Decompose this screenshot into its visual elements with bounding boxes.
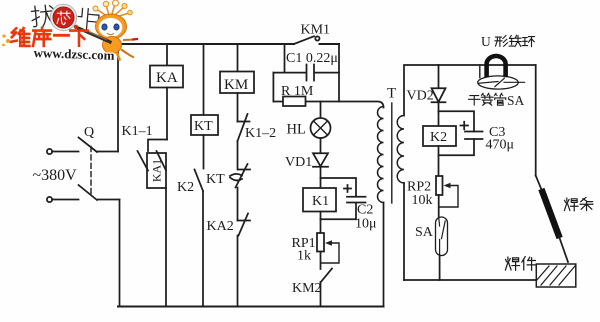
U-shaped iron ring <box>487 56 506 75</box>
wire left feed down <box>119 200 121 307</box>
wire bottom bus <box>118 306 384 308</box>
wire C3 top branch <box>439 111 475 131</box>
svg-text:KT: KT <box>206 172 225 187</box>
reed switch SA tube <box>436 217 448 256</box>
wire VD1 to K1 <box>320 167 322 188</box>
svg-text:K1–2: K1–2 <box>245 126 276 141</box>
svg-text:KT: KT <box>194 119 213 134</box>
wire KT branch upper <box>203 44 205 115</box>
svg-text:10k: 10k <box>412 193 433 208</box>
wire RP1 to KM2 <box>320 252 322 270</box>
wire KT branch mid <box>203 135 205 169</box>
wire secondary down left edge <box>403 183 405 280</box>
watermark logo: badge circle with 芯 <box>50 4 76 30</box>
contact K2 <box>195 170 204 192</box>
diode VD2 <box>432 88 446 102</box>
diode VD1 <box>313 153 328 167</box>
wire KA branch upper <box>166 44 168 66</box>
switch Q link (dashed) <box>90 147 92 197</box>
transformer T core <box>391 103 393 203</box>
wire SA lower <box>439 256 441 281</box>
switch Q pole 1 <box>52 138 118 153</box>
relay coil KA <box>150 66 183 88</box>
wire mid rail <box>273 102 383 108</box>
watermark logo: www.dzsc.com <box>33 45 115 63</box>
contact KM1 <box>294 36 320 44</box>
wire KA branch lower <box>165 188 167 307</box>
svg-text:10μ: 10μ <box>355 217 377 232</box>
svg-text:K2: K2 <box>177 180 194 195</box>
electrode holder wire <box>536 176 543 192</box>
svg-text:K2: K2 <box>430 130 447 145</box>
svg-text:Q: Q <box>84 125 94 140</box>
switch Q pole 2 <box>52 185 119 200</box>
svg-text:C1 0.22μ: C1 0.22μ <box>286 51 338 66</box>
label welding rod (焊条) <box>564 197 593 210</box>
contactor coil KM <box>220 72 254 94</box>
watermark logo: red text 维库一下 <box>11 28 88 46</box>
capacitor C3 <box>461 122 483 139</box>
welding rod (thick) <box>543 192 559 235</box>
node terminal L1 <box>47 149 52 154</box>
wire KM2 lower <box>320 282 322 307</box>
svg-text:SA: SA <box>415 225 434 240</box>
svg-text:T: T <box>387 86 396 102</box>
wire K1 to RP1 <box>320 212 322 234</box>
wire VD2 to K2 <box>438 102 440 126</box>
label workpiece (焊件) <box>505 257 535 271</box>
wire C3 bottom branch <box>439 139 475 155</box>
wire KT branch lower <box>202 191 204 307</box>
relay coil K1 <box>303 188 336 212</box>
transformer T primary winding <box>378 107 384 203</box>
svg-text:HL: HL <box>287 122 306 138</box>
watermark logo: sparks <box>2 34 10 46</box>
svg-text:C2: C2 <box>357 203 373 218</box>
label U-shaped iron ring (U形铁环) <box>481 34 535 49</box>
watermark logo: char 片 outlined <box>77 8 99 30</box>
wire secondary top edge <box>404 65 536 116</box>
label reed tube SA (干簧管SA) <box>469 93 525 108</box>
wire RP2 to SA <box>438 195 440 217</box>
wire KM branch lower <box>237 236 239 307</box>
wire snubber drop <box>284 44 286 73</box>
wire HL drop <box>320 102 322 119</box>
contact KM2 <box>321 269 332 283</box>
svg-text:KM: KM <box>224 77 248 93</box>
svg-text:KA2: KA2 <box>207 219 234 234</box>
svg-text:1k: 1k <box>297 249 311 264</box>
transformer T secondary winding <box>397 116 404 184</box>
lamp HL <box>311 118 331 138</box>
svg-text:470μ: 470μ <box>486 138 515 153</box>
wire C2 top branch <box>321 178 357 197</box>
wire left feed up <box>117 44 119 152</box>
wire KM branch seg1 <box>237 93 239 122</box>
wire snubber right corner <box>338 44 340 102</box>
svg-text:KM2: KM2 <box>292 281 322 296</box>
welding rod tip wire <box>559 235 569 262</box>
watermark logo: char 找 outlined <box>31 4 55 28</box>
wire KM branch seg2 <box>237 141 239 170</box>
wire KM branch upper <box>237 44 239 72</box>
svg-text:K1–1: K1–1 <box>122 124 153 139</box>
svg-text:www.dzsc.com: www.dzsc.com <box>33 45 115 63</box>
workpiece (hatched) <box>536 264 576 287</box>
svg-text:VD2: VD2 <box>407 89 434 104</box>
labels (latin) <box>33 23 515 297</box>
wire HL to VD1 <box>320 138 322 153</box>
svg-text:KA1: KA1 <box>150 159 164 182</box>
svg-text:SA: SA <box>507 93 525 108</box>
wire right block bottom edge <box>404 279 536 281</box>
wire VD2 feed <box>438 65 440 88</box>
node terminal L2 <box>47 197 52 202</box>
capacitor C1 <box>307 65 315 81</box>
reed switch SA (upper, in loop) <box>478 65 525 89</box>
resistor R <box>283 97 306 107</box>
contact KA2 (NC) <box>238 214 251 236</box>
contact K1-2 (NC) <box>238 114 250 141</box>
svg-text:KA: KA <box>156 70 178 86</box>
watermark logo: mascot <box>74 0 137 60</box>
potentiometer RP2 <box>436 176 458 207</box>
wire right block right edge <box>535 65 537 176</box>
svg-text:K1: K1 <box>312 194 329 209</box>
wire snubber top edge <box>273 72 339 74</box>
svg-text:R 1M: R 1M <box>281 84 314 99</box>
contact KA1 box <box>147 153 166 188</box>
potentiometer RP1 <box>317 233 339 263</box>
svg-text:VD1: VD1 <box>285 155 312 170</box>
wire snubber left edge <box>272 73 274 102</box>
wire K2 to RP2 <box>438 146 440 176</box>
relay coil K2 <box>423 126 456 146</box>
relay coil KT <box>191 115 218 135</box>
svg-text:KM1: KM1 <box>301 23 331 38</box>
svg-text:~380V: ~380V <box>33 167 78 184</box>
contact K1-1 / KA1 parallel pair <box>138 140 168 171</box>
wire KM branch seg3 <box>237 188 239 221</box>
wire top bus <box>118 43 339 45</box>
capacitor C2 <box>321 185 366 219</box>
wire KA branch mid <box>166 88 168 140</box>
svg-text:U: U <box>481 34 491 49</box>
wire primary return <box>383 203 385 307</box>
contact KT delayed (NC) <box>230 164 250 188</box>
